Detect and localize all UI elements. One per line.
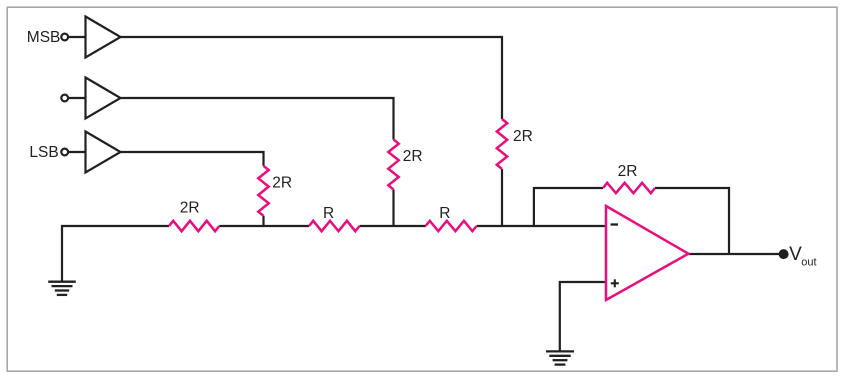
svg-text:MSB: MSB — [27, 29, 61, 46]
buffer U1 (MSB) — [86, 17, 121, 58]
wire feedback left riser — [534, 188, 603, 226]
wire rail segment 2R to R1 — [219, 225, 309, 227]
svg-text:out: out — [801, 257, 816, 269]
resistor R (first rung, horizontal) — [309, 221, 360, 231]
op-amp U4 — [606, 206, 688, 300]
wire U1 output to node A (top rail to 2R branch) — [121, 37, 503, 119]
wire U3 output to LSB 2R branch — [121, 152, 264, 166]
node Vout output terminal dot — [780, 250, 788, 258]
pin plus (non-inverting input) — [611, 279, 619, 287]
resistor 2R (LSB branch, vertical) — [258, 166, 268, 216]
wire LSB 2R branch lower lead to rail — [262, 216, 264, 226]
resistor 2R (feedback, horizontal) — [603, 183, 655, 193]
wire non-inverting input to ground — [560, 282, 606, 351]
wire bit-2 terminal to buffer U2 — [68, 97, 85, 99]
ground op-amp non-inverting input — [546, 351, 574, 364]
wire MSB terminal to buffer U1 — [68, 36, 85, 38]
wire rail segment R1 to R2 — [360, 225, 426, 227]
svg-text:R: R — [439, 205, 450, 222]
node bit-2 input terminal — [61, 95, 68, 102]
svg-text:R: R — [323, 205, 334, 222]
resistor 2R (MSB branch, vertical) — [497, 119, 507, 169]
wire LSB terminal to buffer U3 — [68, 151, 85, 153]
resistor 2R (ladder terminator, horizontal) — [169, 221, 219, 231]
wire rail left segment to terminator 2R — [62, 226, 169, 282]
ground left (ladder terminator) — [48, 282, 76, 295]
svg-text:2R: 2R — [618, 163, 638, 180]
resistor R (second rung, horizontal) — [426, 221, 477, 231]
resistor 2R (middle branch, vertical) — [388, 140, 398, 190]
wire rail segment R2 to op-amp inverting input — [477, 225, 606, 227]
svg-text:V: V — [789, 244, 802, 265]
wire middle 2R branch lower lead to rail — [392, 190, 394, 227]
pin minus (inverting input) — [611, 223, 619, 225]
node MSB input terminal — [61, 34, 68, 41]
svg-text:LSB: LSB — [29, 144, 58, 161]
svg-text:2R: 2R — [272, 174, 292, 191]
svg-text:2R: 2R — [180, 200, 200, 217]
buffer U3 (LSB) — [86, 132, 121, 173]
node LSB input terminal — [61, 149, 68, 156]
buffer U2 — [86, 78, 121, 119]
svg-text:2R: 2R — [513, 128, 533, 145]
wire feedback top right segment and drop to output — [655, 188, 729, 254]
wire op-amp output to Vout terminal — [688, 253, 783, 255]
svg-text:2R: 2R — [403, 148, 423, 165]
wire U2 output to middle 2R branch — [121, 98, 394, 140]
wire MSB 2R branch lower lead to rail — [501, 169, 503, 226]
